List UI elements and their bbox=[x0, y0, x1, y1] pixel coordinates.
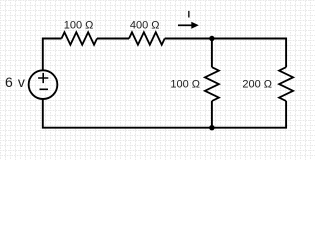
wire middle stub bottom bbox=[211, 101, 213, 128]
voltage source V1 bbox=[29, 70, 58, 99]
label R4 200 ohm bbox=[242, 79, 272, 91]
label V1 6 V bbox=[5, 74, 25, 90]
svg-text:100 Ω: 100 Ω bbox=[64, 19, 94, 31]
wire top-left segment bbox=[43, 39, 62, 71]
wire top-right segment bbox=[165, 39, 286, 68]
resistor R1 100ohm horizontal bbox=[62, 32, 98, 45]
current arrow I bbox=[178, 22, 199, 29]
wire bottom loop bbox=[43, 99, 286, 128]
node A top junction bbox=[209, 36, 214, 41]
resistor R2 400ohm horizontal bbox=[129, 32, 165, 45]
wire middle stub top bbox=[211, 38, 213, 68]
wire between R1 and R2 bbox=[97, 38, 129, 40]
svg-text:400 Ω: 400 Ω bbox=[130, 19, 160, 31]
label R1 100 ohm bbox=[64, 19, 94, 31]
node B bottom junction bbox=[209, 125, 214, 130]
svg-text:200 Ω: 200 Ω bbox=[242, 79, 272, 91]
label I bbox=[188, 11, 189, 18]
resistor R3 100ohm vertical bbox=[205, 67, 219, 101]
svg-text:100 Ω: 100 Ω bbox=[170, 79, 200, 91]
label R3 100 ohm bbox=[170, 79, 200, 91]
svg-text:6 v: 6 v bbox=[5, 74, 25, 90]
resistor R4 200ohm vertical bbox=[279, 67, 293, 101]
label R2 400 ohm bbox=[130, 19, 160, 31]
